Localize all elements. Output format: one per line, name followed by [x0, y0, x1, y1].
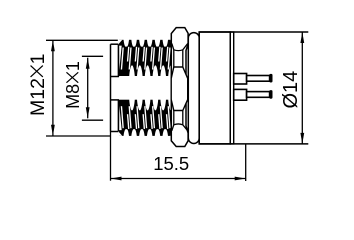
diameter dimension arrowheads [300, 32, 304, 144]
thread shank box bottom [111, 131, 119, 133]
thread shank box top (M12 incomplete-thread shoulder) [111, 44, 120, 131]
pin 2 end cap [269, 90, 272, 99]
wire: length left extension line [110, 132, 112, 181]
label M8x1 [63, 61, 83, 109]
hex nut outline [171, 28, 188, 147]
wire: M12 bottom extension line [46, 135, 111, 137]
sealing ring between hex nut and body [188, 33, 199, 144]
wire: length right extension line [245, 144, 247, 181]
pin 1 shaft [247, 76, 270, 82]
svg-text:M8: M8 [63, 84, 83, 109]
svg-text:1: 1 [63, 61, 83, 71]
wire: left end face line [110, 44, 112, 131]
wire: length dimension line [111, 178, 246, 180]
wire: bottom body edge / diameter extension line [199, 143, 308, 145]
pin 2 shaft [247, 92, 270, 98]
label M12x1 [27, 54, 49, 116]
wire: hex facet line left [173, 50, 175, 125]
svg-text:Ø14: Ø14 [280, 71, 302, 109]
wire: hex chamfer arc top [172, 44, 188, 51]
wire: hex chamfer arc bottom [172, 124, 188, 131]
hex nut middle barrel facet [171, 67, 188, 111]
connector body rear plate [230, 32, 233, 144]
svg-text:M12: M12 [27, 78, 49, 116]
wire: M8 extension ticks [82, 56, 103, 120]
pin 2 base [234, 89, 247, 100]
connector body cylinder (dia 14) [199, 32, 230, 144]
length dimension arrowheads [111, 177, 246, 181]
wire: top body edge / diameter extension line [199, 31, 308, 33]
wire: diameter dimension line [301, 32, 303, 144]
svg-text:1: 1 [27, 54, 49, 65]
pin 1 base [234, 74, 247, 85]
M8 dimension arrowheads [86, 58, 90, 119]
wire: hex facet line right [182, 50, 184, 125]
wire: M8 dimension line [87, 58, 89, 119]
M12 dimension arrowheads [51, 40, 55, 136]
pin 1 end cap [269, 74, 272, 83]
wire: M12 dimension line [52, 40, 54, 136]
M12 thread band bottom (teeth profile) [118, 99, 181, 137]
wire: M12 top extension line [46, 40, 118, 136]
svg-text:15.5: 15.5 [153, 153, 189, 174]
M12 thread band top (teeth profile) [118, 39, 181, 77]
